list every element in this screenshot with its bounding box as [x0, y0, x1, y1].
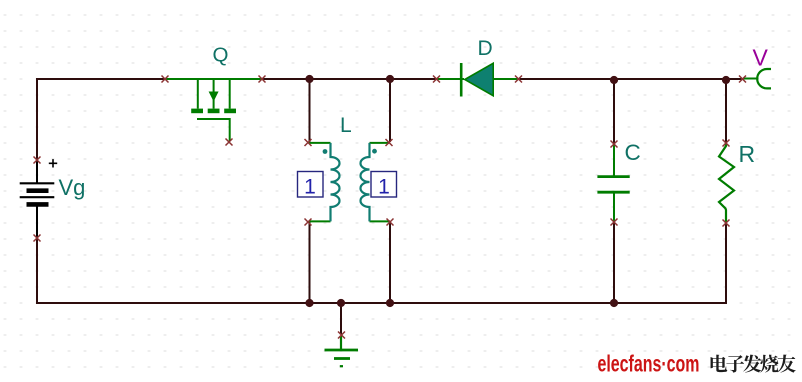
pin marker diode anode — [433, 76, 440, 83]
inductor L (coupled, left winding) — [309, 143, 340, 222]
junction node top transformer-right — [386, 75, 394, 83]
wire resistor top leg — [725, 80, 727, 143]
wire transformer right top leg — [389, 79, 391, 142]
junction node bottom capacitor — [610, 299, 618, 307]
pin marker transformer right top — [386, 139, 393, 146]
pin marker battery bottom — [34, 235, 41, 242]
wire top-left horizontal — [37, 78, 165, 80]
pin marker mosfet source — [259, 76, 266, 83]
wire top middle — [262, 78, 437, 80]
wire bottom rail — [36, 302, 727, 304]
pin marker capacitor top — [611, 141, 618, 148]
svg-text:R: R — [739, 141, 756, 167]
svg-text:1: 1 — [304, 176, 316, 199]
pin marker ground — [338, 332, 345, 339]
svg-text:L: L — [340, 114, 352, 137]
wire transformer left top leg — [309, 79, 311, 142]
turns ratio box right (value 1) — [371, 172, 397, 199]
junction node bottom transformer-right — [386, 299, 394, 307]
junction node bottom ground — [337, 299, 345, 307]
wire capacitor bottom leg — [613, 223, 615, 303]
junction node bottom transformer-left — [305, 299, 313, 307]
transistor Q (MOSFET) — [166, 79, 262, 141]
svg-text:D: D — [478, 37, 493, 60]
pin marker transformer left top — [305, 139, 312, 146]
inductor L (coupled, right winding) — [361, 143, 391, 222]
pin marker resistor bottom — [723, 220, 730, 227]
pin marker resistor top — [723, 140, 730, 147]
wire ground leg — [340, 303, 342, 334]
pin marker transformer left bottom — [305, 219, 312, 226]
junction node top transformer-left — [305, 75, 313, 83]
resistor R — [719, 144, 734, 222]
voltage source Vg — [20, 159, 58, 238]
wire resistor bottom leg — [725, 223, 727, 303]
svg-text:elecfans·com: elecfans·com — [598, 351, 700, 377]
pin marker transformer right bottom — [387, 219, 394, 226]
turns ratio box left (value 1) — [298, 172, 324, 199]
voltage probe V — [743, 69, 771, 88]
pin marker probe — [739, 76, 746, 83]
pin marker capacitor bottom — [611, 219, 618, 226]
wire transformer left bottom leg — [309, 222, 311, 303]
svg-text:V: V — [753, 45, 769, 71]
wire left vertical lower — [36, 238, 38, 303]
wire capacitor top leg — [613, 80, 615, 143]
junction node top capacitor — [610, 76, 618, 84]
svg-text:1: 1 — [378, 176, 390, 199]
capacitor C — [597, 145, 629, 222]
ground — [325, 336, 359, 366]
watermark chinese 电子发烧友 — [711, 355, 796, 373]
diode D — [437, 63, 518, 97]
svg-text:Vg: Vg — [59, 175, 86, 200]
pin marker battery top — [34, 157, 41, 164]
junction node top resistor — [722, 76, 730, 84]
wire transformer right bottom leg — [389, 222, 391, 303]
svg-text:Q: Q — [213, 44, 229, 67]
wire top right — [518, 78, 743, 80]
wire left vertical upper — [36, 78, 38, 160]
svg-text:C: C — [625, 140, 641, 165]
pin marker mosfet gate — [226, 139, 233, 146]
pin marker mosfet drain — [162, 76, 169, 83]
pin marker diode cathode — [515, 76, 522, 83]
